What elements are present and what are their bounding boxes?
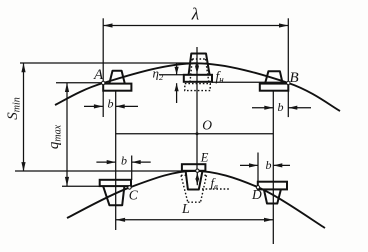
S_min top arrowhead — [21, 63, 25, 72]
node B circle — [287, 81, 290, 84]
right pad centerline — [272, 91, 274, 244]
top apex reference line — [20, 62, 196, 64]
b dim at A: left arrow — [84, 105, 103, 107]
pad E solid inverted trapezoid — [186, 171, 203, 190]
upper arc curve — [55, 63, 340, 111]
b dim at D left vertical stub — [257, 153, 259, 182]
lambda left extension line through A — [102, 18, 104, 117]
pad A trapezoid — [109, 71, 125, 84]
svg-text:λ: λ — [191, 5, 199, 24]
pad B trapezoid — [265, 71, 283, 83]
S_min bottom arrowhead — [21, 162, 25, 171]
lower arc curve — [67, 171, 325, 228]
node O dot — [196, 132, 199, 135]
lambda dimension line — [103, 25, 288, 27]
b dim at C: left arrow — [96, 161, 115, 163]
b dim at D: left arrow — [240, 164, 258, 166]
pad D inverted trapezoid — [264, 189, 281, 203]
O horizontal line — [116, 133, 273, 135]
b dim at D: right arrow — [273, 164, 290, 166]
svg-text:fв: fв — [211, 175, 219, 191]
center vertical line — [196, 47, 198, 170]
b dim at C: right arrow — [132, 161, 151, 163]
L dimension line — [116, 219, 273, 221]
svg-text:E: E — [200, 151, 209, 165]
b dim at A: right arrow — [116, 105, 138, 107]
top pad inner double arrowheads on centerline — [195, 60, 199, 67]
pad C plate — [100, 180, 131, 186]
left pad centerline — [115, 91, 117, 230]
q_max bottom arrowhead — [65, 177, 69, 186]
svg-text:b: b — [266, 158, 272, 172]
lambda right extension line through B — [287, 18, 289, 117]
eta2 label line to pad — [159, 74, 184, 76]
svg-text:L: L — [181, 202, 190, 217]
node D circle — [256, 186, 259, 189]
svg-text:Smin: Smin — [5, 97, 23, 120]
b dim at B: left arrow — [252, 107, 273, 109]
svg-text:C: C — [129, 187, 139, 202]
q_max top extension tick — [56, 82, 103, 84]
node E circle — [196, 169, 199, 172]
svg-text:fн: fн — [216, 69, 225, 85]
S_min dimension line — [23, 63, 25, 171]
pad E dashed nominal trapezoid — [181, 175, 229, 202]
pad A plate — [103, 84, 131, 91]
pad E plate — [182, 164, 206, 171]
svg-text:b: b — [108, 97, 114, 111]
top pad dashed nominal trapezoid — [185, 59, 210, 91]
svg-text:O: O — [202, 117, 212, 132]
pad B plate — [260, 84, 289, 91]
bottom reference line — [15, 170, 182, 172]
b dim at B: right arrow — [288, 107, 311, 109]
f_n reference line to B — [212, 81, 288, 83]
top pad solid trapezoid — [189, 54, 210, 75]
q_max top arrowhead — [65, 83, 69, 92]
pad D plate — [258, 182, 287, 190]
svg-text:B: B — [290, 70, 299, 86]
top pad solid plate — [184, 75, 212, 82]
svg-text:b: b — [278, 100, 284, 114]
b dim at C right vertical stub — [131, 156, 133, 181]
svg-text:qmax: qmax — [46, 124, 64, 149]
q_max bottom extension tick — [62, 185, 100, 187]
q_max dimension line — [66, 83, 68, 187]
eta2 dimension: bottom up arrowhead and shaft — [176, 83, 178, 103]
pad C inverted trapezoid — [103, 186, 124, 205]
eta2 dimension: top shaft and down arrowhead — [176, 63, 178, 75]
svg-text:b: b — [121, 154, 127, 168]
lambda left arrowhead — [103, 23, 112, 27]
pad E inner double arrow f_v — [196, 173, 198, 186]
svg-text:D: D — [251, 187, 262, 202]
svg-text:A: A — [93, 67, 104, 83]
lambda right arrowhead — [279, 23, 288, 27]
node C circle — [128, 186, 131, 189]
node A circle — [102, 81, 105, 84]
